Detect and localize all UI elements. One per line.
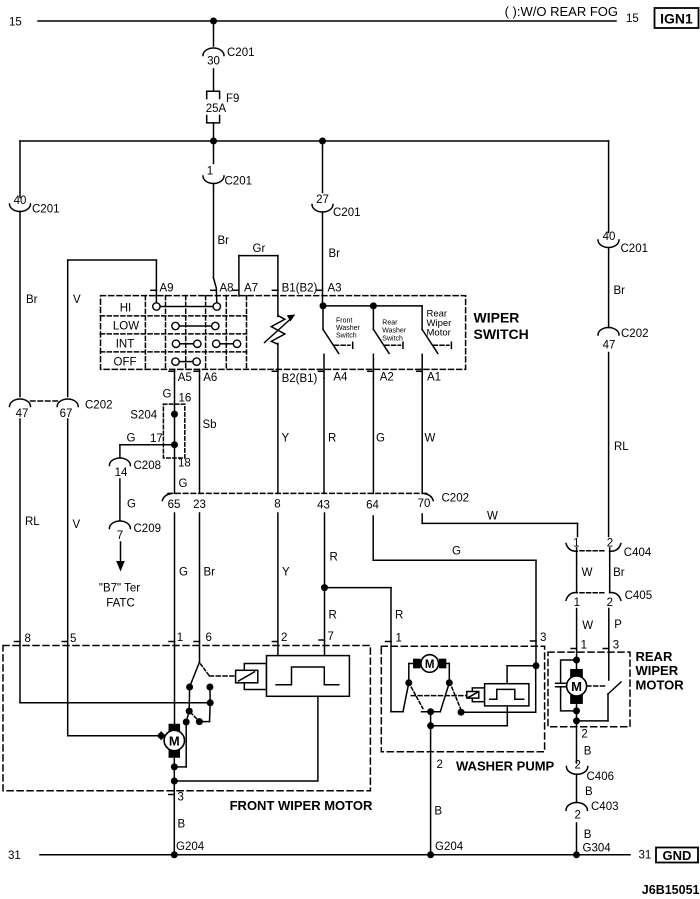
- node: motor minus junction 2: [171, 778, 178, 785]
- svg-text:2: 2: [581, 729, 587, 741]
- wire Sb from A6 to C202 pin 23: [200, 378, 217, 493]
- svg-text:G: G: [127, 433, 136, 445]
- node: pump ground junction: [427, 722, 434, 729]
- svg-text:V: V: [73, 294, 81, 306]
- connector C202 pin 67: [31, 399, 113, 420]
- svg-text:A7: A7: [244, 283, 258, 295]
- svg-text:C202: C202: [621, 328, 649, 340]
- connector C405 pin 1: [566, 592, 580, 609]
- svg-text:W: W: [582, 620, 593, 632]
- terminal A2 stub: [368, 354, 394, 383]
- wire Br between C404 and C405: [610, 551, 625, 593]
- HI contact row: [153, 303, 221, 310]
- wire aux contact loop to pin 3 column: [461, 666, 536, 712]
- svg-text:Front: Front: [336, 318, 352, 325]
- svg-text:40: 40: [14, 195, 27, 207]
- svg-text:Motor: Motor: [427, 328, 451, 339]
- svg-text:C403: C403: [591, 801, 619, 813]
- svg-text:"B7" Ter: "B7" Ter: [99, 583, 140, 595]
- svg-text:Washer: Washer: [336, 325, 361, 332]
- svg-text:P: P: [614, 619, 622, 631]
- svg-text:1: 1: [177, 632, 183, 644]
- svg-text:1: 1: [207, 166, 213, 178]
- svg-text:Gr: Gr: [253, 243, 266, 255]
- wire B C403 to G304 ground: [577, 823, 612, 855]
- node: pump left contact: [405, 679, 412, 686]
- svg-text:R: R: [328, 433, 336, 445]
- svg-text:J6B15051: J6B15051: [642, 883, 700, 897]
- node: contact E: [183, 719, 190, 726]
- node: pin 3 junction: [533, 662, 540, 669]
- svg-text:8: 8: [274, 499, 280, 511]
- svg-text:C208: C208: [134, 460, 162, 472]
- svg-text:WIPER: WIPER: [474, 310, 520, 326]
- connector C201 pin 40 (left): [10, 195, 60, 216]
- wire Y from C202 8 to front wiper pin 2: [272, 513, 290, 656]
- svg-text:15: 15: [626, 13, 639, 25]
- svg-text:A1: A1: [427, 372, 441, 384]
- wire to FATC with arrow: [99, 542, 140, 610]
- wire pump motor right lead: [446, 664, 450, 683]
- node: bus junction at A3 column: [319, 138, 326, 145]
- svg-text:REAR: REAR: [636, 649, 673, 664]
- svg-text:C404: C404: [624, 547, 652, 559]
- svg-text:WIPER: WIPER: [636, 663, 679, 678]
- node: A3 bus junction at rear washer switch: [370, 302, 377, 309]
- front wiper motor M: [157, 725, 185, 758]
- svg-text:RL: RL: [25, 516, 40, 528]
- wiper switch dashed enclosure: [101, 296, 466, 370]
- GND symbol: [656, 848, 698, 863]
- svg-text:16: 16: [179, 393, 192, 405]
- svg-text:Switch: Switch: [336, 333, 357, 340]
- svg-text:C201: C201: [227, 47, 255, 59]
- svg-text:65: 65: [168, 499, 181, 511]
- svg-text:Switch: Switch: [382, 336, 403, 343]
- svg-text:7: 7: [117, 530, 123, 542]
- svg-text:3: 3: [613, 640, 619, 652]
- washer pump motor M: [414, 655, 446, 673]
- dashed mechanical link to breaker (pump): [411, 695, 467, 697]
- dashed actuator link to breaker: [201, 664, 236, 676]
- svg-text:FRONT WIPER MOTOR: FRONT WIPER MOTOR: [230, 798, 373, 813]
- svg-text:B: B: [584, 829, 592, 841]
- svg-text:Rear: Rear: [382, 320, 398, 327]
- svg-text:C201: C201: [225, 176, 253, 188]
- wire junction C down to low-speed contact: [199, 703, 210, 722]
- node: pump right contact: [446, 679, 453, 686]
- svg-text:A6: A6: [203, 372, 217, 384]
- svg-text:A5: A5: [178, 372, 192, 384]
- node: splice junction 16: [171, 411, 178, 418]
- svg-text:C202: C202: [442, 493, 470, 505]
- node: A3 bus junction at front washer switch: [320, 302, 327, 309]
- connector C406 pin 2: [566, 760, 614, 784]
- svg-text:1: 1: [581, 640, 587, 652]
- svg-text:B2(B1): B2(B1): [282, 373, 318, 385]
- connector C209 pin 7: [109, 521, 161, 542]
- node: rear motor plus junction: [573, 657, 580, 664]
- front wiper pin 3 label: [169, 792, 205, 854]
- svg-text:HI: HI: [120, 303, 132, 315]
- wire G branch 17 to C208 pin 14: [120, 433, 175, 458]
- wire G from C202 65 to front wiper pin 1: [169, 513, 188, 725]
- wire Br from C202 23 to front wiper pin 6: [194, 513, 215, 662]
- svg-text:Washer: Washer: [382, 328, 407, 335]
- rear wiper motor switch contact: [422, 306, 451, 354]
- wire center contact down and cam return: [431, 706, 508, 726]
- svg-text:Sb: Sb: [203, 419, 217, 431]
- svg-text:G204: G204: [176, 841, 205, 853]
- svg-text:B1(B2): B1(B2): [282, 283, 318, 295]
- wire from 15 rail to C201 pin 30: [213, 21, 215, 46]
- svg-text:R: R: [395, 610, 403, 622]
- svg-text:B: B: [585, 786, 593, 798]
- svg-text:47: 47: [16, 408, 29, 420]
- node: contact F: [196, 718, 203, 725]
- svg-text:B: B: [584, 746, 592, 758]
- svg-text:IGN1: IGN1: [660, 11, 693, 27]
- wire RL left column to front wiper pin 8: [15, 419, 41, 703]
- wire pin 8 to park contact inside front wiper motor: [20, 702, 210, 704]
- wire G from A2 to C202 pin 64: [373, 378, 385, 493]
- svg-text:Y: Y: [282, 567, 290, 579]
- rear washer switch: [373, 306, 406, 354]
- svg-text:W: W: [487, 511, 498, 523]
- connector C202 pin 47 (left): [10, 399, 31, 420]
- washer pump dashed enclosure: [381, 646, 554, 773]
- svg-text:40: 40: [603, 231, 616, 243]
- svg-text:27: 27: [316, 194, 329, 206]
- dashed link D to F: [191, 713, 199, 721]
- svg-text:2: 2: [607, 597, 613, 609]
- node: pin 8 junction C: [207, 699, 214, 706]
- circuit breaker (front wiper): [236, 664, 267, 690]
- wire W between C404 and C405: [577, 551, 593, 593]
- svg-text:B: B: [434, 806, 442, 818]
- svg-text:( ):W/O REAR FOG: ( ):W/O REAR FOG: [505, 4, 618, 19]
- svg-text:FATC: FATC: [106, 598, 135, 610]
- wire G from C202 64 to washer pump pin 3: [373, 516, 546, 666]
- rear wiper motor M: [567, 660, 587, 703]
- svg-text:C406: C406: [587, 771, 615, 783]
- terminal B1(B2): [272, 256, 317, 317]
- wire G C208 to C209: [120, 479, 136, 520]
- wire pump motor left lead: [409, 664, 414, 683]
- svg-text:G: G: [163, 389, 172, 401]
- wire Gr loop A7 to B1(B2): [233, 243, 278, 296]
- wiper switch internal grid row dividers: [101, 316, 247, 352]
- wire P from C405 to rear wiper pin 3: [603, 609, 622, 681]
- connector C201 pin 40 (right): [598, 231, 648, 255]
- node: park fixed contact B: [206, 684, 213, 691]
- svg-text:3: 3: [178, 792, 184, 804]
- dashed link right blade to aux contact: [452, 687, 461, 708]
- node: ground junction G204 front: [171, 851, 178, 858]
- wire A9 loop to V column: [68, 260, 174, 397]
- svg-text:A2: A2: [380, 372, 394, 384]
- node: ground junction G304: [573, 851, 580, 858]
- svg-text:67: 67: [60, 408, 73, 420]
- connector C208 pin 14: [109, 458, 161, 479]
- svg-text:RL: RL: [614, 441, 629, 453]
- rear washer blade (pump): [422, 683, 450, 712]
- svg-text:31: 31: [639, 850, 652, 862]
- node: rear motor minus junction 2: [573, 717, 580, 724]
- wire left column to C201 pin 40: [19, 141, 21, 198]
- svg-text:G: G: [376, 433, 385, 445]
- svg-text:R: R: [329, 610, 337, 622]
- svg-text:C201: C201: [621, 243, 649, 255]
- svg-text:C201: C201: [32, 204, 60, 216]
- wire RL right column to C404 pin 2: [609, 353, 630, 537]
- svg-text:2: 2: [281, 632, 287, 644]
- wire W from A1 to C202 pin 70: [422, 378, 435, 493]
- wire motor minus column: [173, 757, 175, 855]
- node: pump center contact: [427, 708, 434, 715]
- park switch cam box (front wiper): [267, 656, 350, 697]
- svg-text:GND: GND: [663, 848, 692, 863]
- svg-text:14: 14: [115, 467, 128, 479]
- wire E down to motor minus node: [174, 722, 186, 767]
- svg-text:6: 6: [206, 632, 212, 644]
- svg-text:15: 15: [9, 17, 22, 29]
- svg-text:2: 2: [437, 759, 443, 771]
- wire Br left column: [20, 212, 38, 397]
- rear park switch: [577, 682, 622, 721]
- node: park blade contact: [186, 684, 193, 691]
- node: motor minus junction 1: [171, 763, 178, 770]
- svg-text:70: 70: [418, 498, 431, 510]
- svg-text:31: 31: [8, 850, 21, 862]
- wire pin 5 to motor left terminal: [68, 735, 158, 737]
- svg-text:Br: Br: [329, 248, 341, 260]
- rear wiper motor dashed enclosure: [548, 649, 684, 727]
- svg-text:1: 1: [574, 597, 580, 609]
- rheostat (intermittent delay): [265, 315, 296, 345]
- dashed link left blade to center contact: [411, 687, 423, 708]
- wire pin 3 junction to cam box (pump): [507, 666, 536, 684]
- node: pump aux contact: [458, 709, 465, 716]
- svg-text:SWITCH: SWITCH: [474, 326, 529, 342]
- splice S204 dashed box: [130, 404, 184, 458]
- svg-text:C209: C209: [134, 523, 162, 535]
- svg-text:G204: G204: [435, 841, 464, 853]
- node: junction on 15 rail: [210, 18, 217, 25]
- connector C404 pin 2: [580, 538, 652, 559]
- connector C405 pin 2: [580, 590, 652, 609]
- svg-text:LOW: LOW: [113, 321, 139, 333]
- connector C202 pin 47 (right): [598, 328, 649, 352]
- wire R from A4 to C202 pin 43: [324, 378, 336, 493]
- svg-text:Br: Br: [614, 285, 626, 297]
- svg-text:5: 5: [70, 633, 76, 645]
- svg-text:30: 30: [207, 56, 220, 68]
- svg-text:A4: A4: [333, 372, 348, 384]
- wire B washer pump pin 2 to ground rail: [431, 726, 464, 855]
- svg-text:MOTOR: MOTOR: [636, 678, 685, 693]
- wiper switch title: [474, 310, 529, 343]
- wire D to contact E: [186, 711, 189, 722]
- terminal A6 stub: [194, 369, 217, 384]
- wire 15 rail (IGN1 feed): [9, 4, 639, 29]
- node: splice junction 17: [171, 441, 178, 448]
- circuit breaker (pump): [467, 688, 485, 702]
- svg-text:G: G: [179, 478, 188, 490]
- wiper switch position labels: [113, 303, 139, 369]
- connector C403 pin 2: [566, 801, 619, 822]
- wire R from C202 43 to front wiper pin 7: [319, 513, 338, 656]
- svg-text:Y: Y: [282, 433, 290, 445]
- node: rear motor minus junction 1: [573, 707, 580, 714]
- svg-text:A9: A9: [160, 283, 174, 295]
- svg-text:WASHER PUMP: WASHER PUMP: [456, 759, 555, 774]
- svg-text:3: 3: [540, 632, 546, 644]
- svg-text:B: B: [178, 819, 186, 831]
- svg-text:Br: Br: [613, 567, 625, 579]
- svg-text:47: 47: [603, 340, 616, 352]
- node: R branch junction: [321, 584, 328, 591]
- front wiper motor dashed enclosure: [3, 646, 373, 814]
- svg-text:64: 64: [366, 500, 379, 512]
- wire main bus after fuse: [20, 140, 609, 142]
- svg-text:C201: C201: [333, 207, 361, 219]
- wire B C406 to C403: [577, 774, 594, 802]
- wire G from A5 to C202 pin 65: [163, 378, 192, 493]
- connector C404 pin 1: [566, 538, 580, 552]
- connector C202 row (lower): [162, 493, 469, 512]
- ground rail 31: [8, 850, 651, 863]
- svg-text:S204: S204: [130, 410, 157, 422]
- INT contact row: [172, 340, 240, 347]
- wire Br right column: [609, 248, 626, 328]
- wire Br from C201 pin 27 to terminal A3: [312, 141, 361, 306]
- svg-text:G: G: [127, 499, 136, 511]
- svg-text:A8: A8: [220, 283, 234, 295]
- drawing number J6B15051: [642, 883, 700, 897]
- terminal A4 stub: [319, 354, 349, 383]
- wire B rear pin 2 to C406: [577, 727, 592, 763]
- connector C201 pin 30: [203, 47, 255, 68]
- svg-text:Br: Br: [218, 235, 230, 247]
- svg-text:43: 43: [317, 500, 330, 512]
- svg-text:18: 18: [178, 458, 191, 470]
- node: pivot D: [186, 708, 193, 715]
- LOW contact row: [172, 322, 219, 329]
- node: ground junction G204 pump: [427, 851, 434, 858]
- svg-text:A3: A3: [328, 283, 342, 295]
- wire cam box output to motor minus: [174, 696, 318, 781]
- wire fuse to bus: [213, 123, 215, 141]
- wire R branch to washer pump pin 1: [325, 588, 404, 712]
- svg-text:G: G: [452, 546, 461, 558]
- wire C201 to fuse F9: [213, 69, 215, 91]
- svg-text:8: 8: [25, 633, 31, 645]
- wire V column below C202 to front wiper pin 5: [62, 419, 80, 736]
- svg-text:25A: 25A: [206, 103, 227, 115]
- front washer switch: [323, 306, 361, 354]
- IGN1 power symbol: [655, 8, 699, 28]
- svg-text:G: G: [179, 567, 188, 579]
- terminal B2(B1): [272, 343, 317, 385]
- wire Br from C201 pin 1 to terminal A8: [203, 141, 252, 303]
- svg-text:7: 7: [328, 631, 334, 643]
- svg-text:1: 1: [396, 633, 402, 645]
- wiper switch internal grid column dividers: [145, 296, 246, 370]
- wire contact B to pin 8 node: [209, 687, 211, 703]
- svg-text:F9: F9: [226, 93, 239, 105]
- svg-text:M: M: [425, 659, 435, 671]
- svg-text:G304: G304: [583, 843, 612, 855]
- svg-text:INT: INT: [116, 339, 135, 351]
- wire internal A3 bus: [323, 305, 423, 307]
- park switch cam box (pump): [485, 684, 529, 706]
- front washer blade (pump): [391, 683, 409, 712]
- svg-text:W: W: [582, 567, 593, 579]
- svg-text:R: R: [330, 552, 338, 564]
- svg-text:OFF: OFF: [114, 357, 137, 369]
- svg-text:M: M: [169, 734, 180, 749]
- svg-text:2: 2: [574, 760, 580, 772]
- terminal A5 stub: [169, 369, 192, 384]
- OFF contact row: [172, 358, 201, 365]
- svg-text:W: W: [425, 433, 436, 445]
- svg-text:C405: C405: [625, 590, 653, 602]
- wire right column from bus to C201 pin 40 (right): [608, 141, 610, 233]
- wire Y from B2(B1) to C202 pin 8: [278, 378, 290, 493]
- wire rear motor minus column: [576, 703, 578, 727]
- svg-text:17: 17: [150, 433, 163, 445]
- svg-text:M: M: [571, 679, 582, 694]
- node: bus junction at A8 column: [210, 138, 217, 145]
- svg-text:C202: C202: [85, 400, 113, 412]
- wire blade A to pivot D: [188, 687, 190, 711]
- svg-text:23: 23: [193, 499, 206, 511]
- wire W from C405 to rear wiper pin 1: [571, 609, 593, 661]
- fuse F9 25A: [206, 91, 240, 123]
- svg-text:Br: Br: [26, 294, 38, 306]
- svg-text:Br: Br: [204, 567, 216, 579]
- terminal A1 stub: [417, 354, 441, 383]
- svg-text:2: 2: [574, 810, 580, 822]
- svg-text:V: V: [73, 519, 81, 531]
- wire W from C202 70 to C404 pin 1: [422, 511, 577, 537]
- front wiper park switch blade: [190, 662, 200, 687]
- suppressor capacitor branch: [556, 660, 577, 711]
